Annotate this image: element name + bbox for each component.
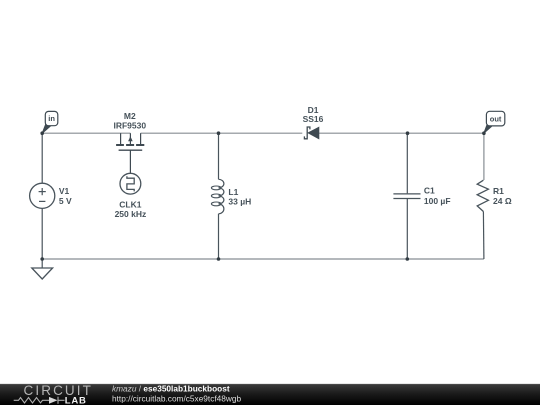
junction dot C1 top [406, 131, 410, 135]
junction dot C1 bottom [406, 257, 410, 261]
capacitor C1 [393, 133, 420, 259]
wire top rail middle segment [141, 132, 303, 134]
wire right rail upper [483, 133, 485, 180]
wire bottom rail [42, 258, 484, 260]
wire left rail lower [41, 208, 43, 259]
svg-text:out: out [490, 114, 502, 123]
svg-text:100 µF: 100 µF [424, 196, 451, 206]
svg-text:kmazu / ese350lab1buckboost: kmazu / ese350lab1buckboost [112, 383, 230, 393]
junction dot L1 bottom [217, 257, 221, 261]
transistor M2 (PMOS IRF9530) [116, 133, 144, 173]
svg-text:IRF9530: IRF9530 [113, 120, 146, 130]
svg-text:5 V: 5 V [59, 196, 72, 206]
inductor L1 [211, 133, 224, 259]
svg-text:R1: R1 [493, 186, 504, 196]
footer bar [0, 384, 540, 405]
junction dot L1 top [217, 131, 221, 135]
junction dot at out node [482, 131, 486, 135]
svg-text:C1: C1 [424, 186, 435, 196]
voltage source V1 [30, 183, 55, 208]
resistor R1 [477, 180, 488, 259]
wire top rail right segment [319, 132, 484, 134]
node flag in [42, 111, 58, 133]
wire left rail upper [41, 133, 43, 183]
wire top rail left segment [42, 132, 130, 134]
svg-text:250 kHz: 250 kHz [115, 209, 147, 219]
clock source CLK1 [120, 173, 141, 194]
svg-text:33 µH: 33 µH [228, 197, 251, 207]
svg-text:http://circuitlab.com/c5xe9tcf: http://circuitlab.com/c5xe9tcf48wgb [112, 393, 242, 403]
svg-text:24 Ω: 24 Ω [493, 196, 512, 206]
junction dot at in node [40, 131, 44, 135]
svg-text:LAB: LAB [65, 396, 87, 405]
CircuitLab logo resistor-diode glyph [14, 397, 65, 404]
svg-text:V1: V1 [59, 186, 70, 196]
node flag out [484, 111, 505, 133]
svg-text:L1: L1 [228, 187, 238, 197]
junction dot ground [40, 257, 44, 261]
ground [32, 259, 53, 279]
diode D1 (Schottky SS16) [304, 127, 319, 139]
svg-text:SS16: SS16 [303, 114, 324, 124]
svg-text:in: in [48, 114, 55, 123]
